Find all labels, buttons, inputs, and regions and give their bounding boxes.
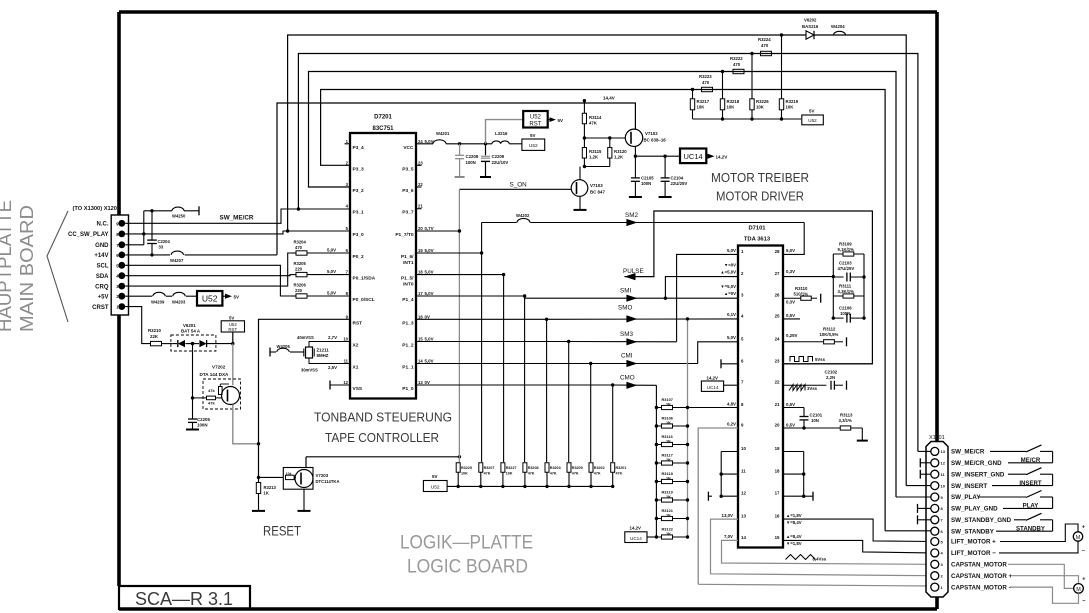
resistor R3116 1K <box>656 444 661 446</box>
wire resistor bottoms to U52 <box>693 118 802 120</box>
svg-text:5,0V: 5,0V <box>425 248 434 253</box>
svg-text:10K: 10K <box>461 472 468 476</box>
svg-text:20: 20 <box>418 226 423 231</box>
svg-text:100N: 100N <box>641 181 651 186</box>
switch PLAY contact and link <box>1040 496 1053 498</box>
resistor 10k internal <box>286 475 295 479</box>
svg-text:8MHZ: 8MHZ <box>317 353 329 358</box>
terminator pin8 <box>917 504 919 513</box>
wire SM3 jog to pin1 <box>677 254 738 341</box>
svg-text:27: 27 <box>775 271 780 276</box>
svg-text:SW_STANDBY_GND: SW_STANDBY_GND <box>951 517 1012 524</box>
wire column P1_2 SM3 <box>568 342 570 463</box>
svg-text:10: 10 <box>941 483 946 488</box>
svg-text:W4201: W4201 <box>436 131 450 136</box>
svg-text:5V: 5V <box>432 474 438 479</box>
resistor R3217 10K <box>692 90 694 99</box>
sawtooth symbol pin22 <box>789 385 805 391</box>
svg-text:1K: 1K <box>666 457 671 462</box>
svg-text:C2102: C2102 <box>825 370 838 375</box>
wire P1_2 stub SM3 <box>416 341 569 343</box>
svg-text:5,0V: 5,0V <box>425 291 434 296</box>
arrow PULSE <box>625 273 636 280</box>
wire VCC <box>416 143 433 145</box>
svg-text:1K: 1K <box>666 513 671 518</box>
connector X1201 body <box>111 215 128 315</box>
transistor V7202 <box>222 387 240 405</box>
svg-text:5V: 5V <box>809 109 814 114</box>
svg-text:TDA 3613: TDA 3613 <box>744 237 771 243</box>
svg-text:LOGIK—PLATTE: LOGIK—PLATTE <box>400 533 533 554</box>
svg-text:100N: 100N <box>197 423 208 428</box>
svg-text:W4204: W4204 <box>831 24 845 29</box>
svg-text:220: 220 <box>295 267 303 272</box>
svg-text:47K: 47K <box>589 121 598 126</box>
inductor W4202 <box>517 218 530 222</box>
squarewave symbol pin23 <box>790 357 813 362</box>
wire bus3 P3_2 <box>309 72 897 498</box>
D7201 pin 23 stub <box>416 164 422 166</box>
resistor R3119 1K <box>656 499 661 501</box>
svg-text:SMI: SMI <box>620 288 631 295</box>
svg-text:PLAY: PLAY <box>1023 503 1039 510</box>
switch ME/CR wire upper <box>990 450 1026 452</box>
svg-text:47k: 47k <box>208 388 215 393</box>
svg-text:18: 18 <box>418 270 423 275</box>
X1101 pin 8 SW_PLAY_GND <box>931 504 939 512</box>
wire pins 17-19 rail <box>783 451 804 453</box>
svg-text:SMO: SMO <box>618 305 632 312</box>
arrow CMO <box>626 382 637 389</box>
wire resistor row rail to U52 <box>447 485 613 487</box>
switch PLAY blade <box>1026 491 1042 498</box>
svg-text:0,1V: 0,1V <box>727 312 736 317</box>
svg-text:47K: 47K <box>550 472 557 476</box>
svg-text:SCL: SCL <box>97 264 109 270</box>
resistor R3206 220 <box>290 295 296 297</box>
svg-text:−: − <box>1082 599 1085 605</box>
svg-text:R3207: R3207 <box>484 466 495 470</box>
svg-text:26: 26 <box>775 293 780 298</box>
svg-text:Z1211: Z1211 <box>317 348 330 353</box>
svg-text:UC14: UC14 <box>630 536 642 541</box>
svg-text:1K: 1K <box>666 420 671 425</box>
wire CMO <box>613 384 657 386</box>
svg-text:47K: 47K <box>572 472 579 476</box>
capacitor C2101 10N <box>803 408 805 417</box>
svg-text:INT1: INT1 <box>403 260 414 266</box>
svg-text:15: 15 <box>418 337 423 342</box>
wire bus2 into pin13 <box>918 450 931 452</box>
svg-text:R3112: R3112 <box>823 327 836 332</box>
inductor W4205 <box>277 348 289 352</box>
switch INSERT contact and link <box>1040 473 1053 475</box>
svg-text:40mVSS: 40mVSS <box>297 335 314 340</box>
svg-text:CRST: CRST <box>92 305 109 311</box>
svg-text:0,5V: 0,5V <box>786 423 795 428</box>
arrow SMO <box>626 315 637 322</box>
svg-text:11: 11 <box>741 469 746 474</box>
inductor W4201 <box>433 140 446 144</box>
wire bus3 into pin9 <box>896 496 931 498</box>
D7201 pin 22 stub <box>416 186 422 188</box>
svg-text:14,2V: 14,2V <box>707 376 719 381</box>
svg-text:D7201: D7201 <box>374 115 392 121</box>
triangle wave symbol 8,4Vss <box>786 555 816 560</box>
svg-text:470: 470 <box>295 245 303 250</box>
svg-text:10: 10 <box>741 446 746 451</box>
wire crystal <box>270 351 276 353</box>
wire P1_1 stub CMI <box>416 363 591 365</box>
svg-text:25: 25 <box>775 313 780 318</box>
svg-text:C2209: C2209 <box>492 154 505 159</box>
switch ME/CR blade <box>1026 445 1042 452</box>
svg-text:(TO X1300) X1201: (TO X1300) X1201 <box>73 206 121 212</box>
connector bracket <box>47 211 68 322</box>
svg-text:22U/10V: 22U/10V <box>492 160 509 165</box>
svg-text:P1_7/T0: P1_7/T0 <box>395 232 413 238</box>
svg-text:R3201: R3201 <box>616 466 627 470</box>
switch ME/CR contact and link <box>1040 450 1053 452</box>
switch STANDBY wire upper <box>1014 519 1026 521</box>
svg-text:P3_0: P3_0 <box>353 232 365 238</box>
svg-text:R3120: R3120 <box>614 149 627 154</box>
svg-text:V7103: V7103 <box>590 183 603 188</box>
svg-text:P1_4: P1_4 <box>402 297 414 303</box>
X1101 pin 4 LIFT_MOTOR - <box>931 549 939 557</box>
svg-text:P3_4: P3_4 <box>353 145 365 151</box>
svg-text:ME/CR: ME/CR <box>1021 457 1041 464</box>
svg-text:▼=1,8V: ▼=1,8V <box>786 541 802 546</box>
wire lift motor minus <box>999 541 1078 553</box>
svg-text:5,0V: 5,0V <box>425 359 434 364</box>
svg-text:M: M <box>1076 587 1081 593</box>
svg-text:UC14: UC14 <box>684 152 703 161</box>
switch PLAY wire lower <box>1003 507 1053 509</box>
svg-text:100N: 100N <box>466 160 476 165</box>
svg-text:C2103: C2103 <box>839 261 852 266</box>
svg-text:X1: X1 <box>353 365 359 371</box>
svg-text:5,0V: 5,0V <box>425 337 434 342</box>
svg-text:CAPSTAN_MOTOR +: CAPSTAN_MOTOR + <box>951 573 1013 580</box>
svg-text:SM2: SM2 <box>625 212 638 219</box>
svg-text:21: 21 <box>418 204 423 209</box>
X1201 pin 2 +5V <box>118 293 125 300</box>
svg-text:10K: 10K <box>506 472 513 476</box>
svg-text:V6201: V6201 <box>183 323 196 328</box>
svg-text:▲=0V: ▲=0V <box>724 291 736 296</box>
svg-text:L3216: L3216 <box>495 131 508 136</box>
wire lift motor plus <box>1000 524 1078 542</box>
svg-text:5,0V: 5,0V <box>727 248 736 253</box>
svg-text:M: M <box>1076 535 1081 541</box>
svg-text:10K: 10K <box>756 105 765 110</box>
wire column P1_1 CMI <box>590 364 592 463</box>
svg-text:47K: 47K <box>528 472 535 476</box>
inductor W4209 <box>153 292 165 296</box>
svg-text:+14V: +14V <box>94 253 108 259</box>
svg-text:R3204: R3204 <box>294 240 307 245</box>
svg-text:INT0: INT0 <box>403 282 414 288</box>
svg-text:7,0V: 7,0V <box>724 534 733 539</box>
svg-text:R3110: R3110 <box>795 286 808 291</box>
wire PULSE to D7101 pin 23 <box>625 211 873 364</box>
svg-text:5,0V: 5,0V <box>327 248 336 253</box>
wire RC right rail <box>863 254 865 318</box>
svg-text:10K: 10K <box>727 105 736 110</box>
svg-text:CMI: CMI <box>621 353 633 360</box>
svg-text:2,7V: 2,7V <box>328 335 337 340</box>
ground R3113 <box>857 440 868 442</box>
crystal Z1211 8MHZ <box>306 347 313 358</box>
wire X1 <box>309 358 350 364</box>
wire P1_3 stub SMO <box>416 318 547 320</box>
ground C2105 <box>629 196 642 198</box>
svg-text:5V: 5V <box>234 295 240 300</box>
resistor R3117 1K <box>656 462 661 464</box>
wire pin15 to lift motor minus <box>783 540 931 553</box>
svg-text:R3113: R3113 <box>840 413 853 418</box>
svg-text:0V: 0V <box>425 380 430 385</box>
svg-text:C2204: C2204 <box>158 239 171 244</box>
svg-text:V7203: V7203 <box>316 473 329 478</box>
svg-text:16: 16 <box>775 514 780 519</box>
svg-text:1K: 1K <box>264 491 269 496</box>
wire column P1_6 SM2 <box>481 223 483 463</box>
X1101 pin 12 SW_ME/CR_GND <box>931 459 939 467</box>
wire pin23 to PULSE loop <box>783 363 872 365</box>
ground C2208 <box>455 176 465 178</box>
capacitor C2204 <box>150 209 153 212</box>
svg-text:LOGIC BOARD: LOGIC BOARD <box>407 557 528 578</box>
svg-text:10K: 10K <box>697 105 706 110</box>
wire bus1 top <box>288 35 907 486</box>
svg-text:GND: GND <box>95 243 109 249</box>
terminator C2102 <box>846 381 848 390</box>
wire SDA to P0_1/SDA <box>125 275 290 276</box>
wire P1_5 stub <box>416 274 504 276</box>
arrow SM2 <box>626 219 637 226</box>
svg-text:14: 14 <box>741 535 746 540</box>
wire R3115 R3120 join <box>584 166 609 168</box>
ground V7103 <box>574 209 587 211</box>
svg-text:C2105: C2105 <box>641 176 654 181</box>
svg-text:SDA: SDA <box>96 274 109 280</box>
svg-text:0,5V: 0,5V <box>786 313 795 318</box>
svg-text:12: 12 <box>941 461 946 466</box>
IC D7101 TDA 3613 body <box>738 246 783 548</box>
power symbol U52 RST box <box>523 111 548 128</box>
terminator pin7 <box>917 515 919 524</box>
svg-text:R3208: R3208 <box>528 466 539 470</box>
motor M capstan <box>1074 584 1084 594</box>
resistor R3201 47K <box>611 463 615 473</box>
svg-text:S_ON: S_ON <box>510 182 528 189</box>
svg-text:V7202: V7202 <box>212 365 226 370</box>
wire column P1_3 SMO <box>546 319 548 462</box>
svg-text:15: 15 <box>775 535 780 540</box>
svg-text:19: 19 <box>775 446 780 451</box>
svg-text:5V: 5V <box>229 315 234 320</box>
arrow SMI <box>626 295 637 302</box>
ground C2209 <box>480 176 491 178</box>
svg-text:10N: 10N <box>811 418 819 423</box>
svg-text:V6202: V6202 <box>804 18 817 23</box>
svg-text:0,5V: 0,5V <box>786 402 795 407</box>
wire V7102 emitter to UC14 rail <box>634 146 636 156</box>
svg-text:P1_5/: P1_5/ <box>401 276 414 282</box>
svg-text:5,0V: 5,0V <box>727 335 736 340</box>
wire V7203 collector <box>305 457 307 468</box>
svg-text:R3203: R3203 <box>550 466 561 470</box>
svg-text:R3109: R3109 <box>839 242 852 247</box>
svg-text:22K: 22K <box>150 334 159 339</box>
svg-text:28: 28 <box>775 249 780 254</box>
switch INSERT blade <box>1026 468 1042 475</box>
svg-text:19: 19 <box>418 248 423 253</box>
wire pin21 to C2101 <box>783 407 804 409</box>
svg-text:5V: 5V <box>530 133 536 138</box>
svg-text:0,7V: 0,7V <box>425 226 434 231</box>
svg-text:30mVSS: 30mVSS <box>301 368 318 373</box>
wire bus4 P3_3 <box>321 90 886 531</box>
svg-text:VCC: VCC <box>403 145 414 151</box>
wire W4250 test stub <box>144 210 172 212</box>
svg-text:STANDBY: STANDBY <box>1016 526 1045 533</box>
svg-text:DTC114TKA: DTC114TKA <box>316 479 340 484</box>
board border bottom <box>119 607 937 611</box>
wire V7203 emitter to ground <box>303 489 305 511</box>
wire X2 <box>309 342 350 348</box>
svg-text:10k: 10k <box>286 472 292 476</box>
svg-text:5V: 5V <box>558 118 564 123</box>
ground R3213 <box>252 510 265 512</box>
wire pin16 to lift motor plus <box>783 519 931 541</box>
X1201 pin 7 GND <box>118 241 125 248</box>
svg-text:100N: 100N <box>840 311 850 316</box>
svg-text:1K: 1K <box>666 494 671 499</box>
svg-text:P1_3: P1_3 <box>402 320 414 326</box>
resistor R3205 220 <box>290 274 296 276</box>
svg-text:0,25V: 0,25V <box>786 333 798 338</box>
X1201 pin 3 CRQ <box>118 283 125 290</box>
ground C2205 <box>186 429 199 431</box>
svg-text:33: 33 <box>159 245 164 250</box>
diode V6201a <box>173 343 177 345</box>
wire SMI jog to pin2 <box>665 277 738 299</box>
X1101 pin 7 SW_STANDBY_GND <box>931 516 939 524</box>
svg-text:LIFT_MOTOR −: LIFT_MOTOR − <box>951 550 996 557</box>
wire UC14 to chain <box>647 536 656 538</box>
svg-text:X1101: X1101 <box>929 435 945 441</box>
diode V6201b <box>199 340 206 347</box>
svg-text:14,2V: 14,2V <box>630 526 642 531</box>
wire V7102 base node <box>583 136 586 139</box>
svg-text:R3114: R3114 <box>589 115 602 120</box>
svg-text:R3206: R3206 <box>294 283 307 288</box>
svg-text:22U/25V: 22U/25V <box>671 181 688 186</box>
svg-text:24: 24 <box>418 139 423 144</box>
svg-text:R3225: R3225 <box>461 466 472 470</box>
svg-text:470: 470 <box>761 43 769 48</box>
wire RST net from D7201 pin9 <box>259 319 351 477</box>
svg-text:CRQ: CRQ <box>95 284 109 290</box>
svg-text:CAPSTAN_MOTOR: CAPSTAN_MOTOR <box>951 562 1007 569</box>
svg-text:C2106: C2106 <box>839 306 852 311</box>
svg-text:P1_2: P1_2 <box>402 343 414 349</box>
svg-text:BAT 54 A: BAT 54 A <box>181 329 201 334</box>
svg-text:5Vss: 5Vss <box>815 357 826 362</box>
svg-text:1K: 1K <box>666 439 671 444</box>
svg-text:SW_PLAY: SW_PLAY <box>951 494 981 501</box>
wire bus1 into pin10 <box>906 485 931 487</box>
svg-text:2,2N: 2,2N <box>826 375 835 380</box>
svg-text:−: − <box>1082 549 1085 555</box>
svg-text:470: 470 <box>733 62 741 67</box>
svg-text:3Vss: 3Vss <box>807 386 818 391</box>
svg-text:SCA—R 3.1: SCA—R 3.1 <box>135 588 233 609</box>
wire bus5 +14V <box>277 103 635 255</box>
svg-text:R3111: R3111 <box>839 284 852 289</box>
svg-text:17: 17 <box>418 291 423 296</box>
svg-text:R3202: R3202 <box>594 466 605 470</box>
resistor R3219 10K <box>781 35 783 99</box>
svg-text:R3222: R3222 <box>730 56 743 61</box>
resistor R3203 47K <box>545 463 549 473</box>
svg-text:14: 14 <box>418 359 423 364</box>
svg-text:BC 638–16: BC 638–16 <box>644 138 667 143</box>
svg-text:12: 12 <box>343 380 348 385</box>
arrow CMI <box>626 360 637 367</box>
title box SCA-R 3.1 <box>119 586 250 609</box>
svg-text:P3_5: P3_5 <box>402 166 414 172</box>
wire SCL to P0_0/SCL <box>125 265 290 296</box>
svg-text:RST: RST <box>529 122 541 128</box>
board border left (interrupted by connector X1201) <box>117 12 121 215</box>
svg-text:0,3V: 0,3V <box>786 300 795 305</box>
svg-text:5,0V: 5,0V <box>327 291 336 296</box>
svg-text:N.C.: N.C. <box>97 222 109 228</box>
resistor R3207 47K <box>479 463 483 473</box>
svg-text:TONBAND STEUERUNG: TONBAND STEUERUNG <box>314 410 452 425</box>
terminator crystal <box>269 348 271 357</box>
X1201 pin 4 SDA <box>118 272 125 279</box>
wire pin9 down to capstan motor minus <box>698 428 738 584</box>
svg-text:HAUPTPLATTE: HAUPTPLATTE <box>0 200 15 332</box>
X1101 pin 10 SW_INSERT <box>931 482 939 490</box>
svg-text:12: 12 <box>741 491 746 496</box>
resistor R3107 1K <box>656 407 661 409</box>
svg-text:1,2K: 1,2K <box>614 155 624 160</box>
X1101 pin 6 SW_STANDBY <box>931 527 939 535</box>
wire to U52 RST box <box>486 120 524 144</box>
svg-text:CMO: CMO <box>620 375 635 382</box>
svg-text:P3_1: P3_1 <box>353 210 365 216</box>
svg-text:9,1K/1%: 9,1K/1% <box>838 247 855 252</box>
svg-text:SW_ME/CR_GND: SW_ME/CR_GND <box>951 460 1002 467</box>
arrow SM3 <box>626 338 637 345</box>
svg-text:3,3/1%: 3,3/1% <box>839 418 853 423</box>
capacitor C2208 100N <box>459 144 461 156</box>
switch INSERT wire upper <box>1008 473 1026 475</box>
wire pin25 stub <box>783 318 800 320</box>
capacitor C2105 100N <box>634 156 636 178</box>
wire N.C. to P3_1 / SW_ME_CR net <box>125 209 350 223</box>
svg-text:P0_1/SDA: P0_1/SDA <box>353 276 376 282</box>
wire SMI <box>525 297 738 299</box>
resistor 47k (V7202 base pullup) <box>219 387 223 395</box>
power symbol U52 RST (reset) <box>232 332 234 344</box>
